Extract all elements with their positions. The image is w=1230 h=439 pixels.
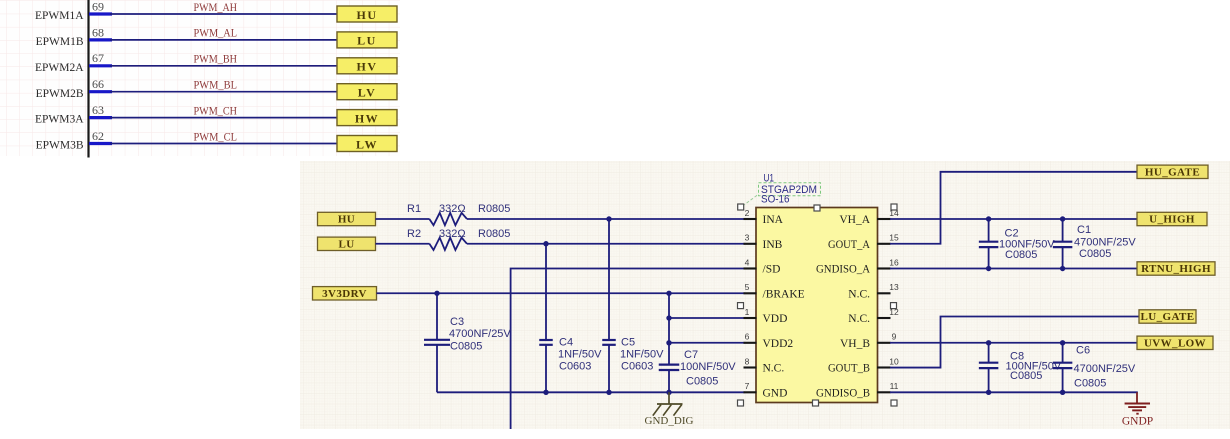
svg-text:5: 5 [745,282,750,292]
pin 9 VH_B [840,332,897,350]
pin EPWM1B (number 68) [36,25,112,48]
net label PWM_BH [194,52,238,66]
svg-text:N.C.: N.C. [848,289,870,301]
resistor R1 332R [407,203,510,225]
pin 2 INA [744,208,784,226]
junction 3V3DRV / VDD2 [666,340,671,345]
svg-text:GNDISO_B: GNDISO_B [816,388,870,400]
svg-text:C0805: C0805 [1010,370,1042,382]
svg-text:4700NF/25V: 4700NF/25V [449,328,511,340]
wire net INB: R2 to pin 3 [467,243,745,245]
capacitor C1 4700NF/25V [1053,219,1137,269]
wire PWM_AL [110,39,337,41]
svg-text:C1: C1 [1077,224,1091,236]
junction U_HIGH / C2 [986,216,991,221]
wire net UVW_LOW: pin 9 VH_B to port [890,342,1137,344]
svg-text:11: 11 [890,381,899,391]
wire net RTNU_HIGH: pin 16 GNDISO_A to port [890,268,1137,270]
svg-text:LU: LU [357,34,377,48]
svg-text:GOUT_A: GOUT_A [828,239,871,251]
svg-text:332Ω: 332Ω [439,228,466,240]
svg-text:C0603: C0603 [559,360,591,372]
wire PWM_CH [110,117,337,119]
capacitor C6 4700NF/25V [1053,343,1136,393]
net label PWM_CH [194,103,238,117]
svg-text:HU: HU [338,214,355,226]
port LU [318,237,376,250]
port HW [337,110,397,126]
svg-text:PWM_AH: PWM_AH [194,0,238,14]
svg-text:LU: LU [338,239,354,251]
junction UVW_LOW / C8 [986,340,991,345]
pin EPWM2B (number 66) [36,77,112,100]
junction RTNU_HIGH / C1 [1060,266,1065,271]
port UVW_LOW [1137,336,1213,349]
svg-text:68: 68 [92,25,104,39]
svg-text:4: 4 [745,257,750,267]
svg-text:PWM_BL: PWM_BL [194,78,238,92]
port LU [337,32,397,48]
svg-text:R2: R2 [407,228,421,240]
op-amp/gate-driver U1 STGAP2DM body [756,208,878,403]
svg-text:R1: R1 [407,203,421,215]
svg-text:PWM_AL: PWM_AL [194,26,238,40]
svg-text:EPWM3B: EPWM3B [36,140,84,152]
pin 7 GND [744,381,788,399]
ground symbol GND_DIG [645,392,694,427]
junction U_HIGH / C1 [1060,216,1065,221]
svg-text:15: 15 [889,233,899,243]
junction GND rail / C4 [543,390,548,395]
svg-text:LV: LV [358,86,377,100]
svg-text:VH_B: VH_B [840,338,870,350]
svg-text:C5: C5 [621,337,635,349]
wire net GND_DIG rail [437,391,745,393]
junction UVW_LOW / C6 [1060,340,1065,345]
svg-text:3: 3 [745,233,750,243]
svg-text:N.C.: N.C. [848,313,870,325]
wire net GNDP: pin 11 GNDISO_B to ground [890,391,1138,393]
pin 3 INB [744,233,783,251]
svg-text:N.C.: N.C. [763,363,785,375]
capacitor C4 1NF/50V [539,244,602,393]
svg-text:RTNU_HIGH: RTNU_HIGH [1141,263,1211,275]
pin EPWM3A (number 63) [35,103,112,126]
svg-text:R0805: R0805 [478,228,510,240]
pin 16 GNDISO_A [816,257,899,275]
wire net /SD (to off-sheet, down) [511,269,745,429]
svg-text:C0805: C0805 [1074,378,1106,390]
svg-text:/BRAKE: /BRAKE [763,289,805,301]
wire net INA: HU port to R1 [376,218,430,220]
capacitor C2 100NF/50V [979,219,1055,269]
svg-text:4700NF/25V: 4700NF/25V [1074,237,1136,249]
junction 3V3DRV / C3 [434,291,439,296]
pin EPWM2A (number 67) [35,51,112,74]
resistor R2 332R [407,228,510,250]
svg-text:PWM_BH: PWM_BH [194,52,238,66]
junction INA / C5 [606,216,611,221]
svg-text:PWM_CH: PWM_CH [194,103,238,117]
svg-text:1NF/50V: 1NF/50V [558,349,602,361]
wire PWM_BL [110,91,337,93]
svg-text:C6: C6 [1076,345,1090,357]
svg-text:HU_GATE: HU_GATE [1145,167,1200,179]
capacitor C3 4700NF/25V [424,293,511,392]
sheet background (main gate-driver schematic) [300,161,1230,429]
pin 6 VDD2 [744,332,794,350]
pin 10 GOUT_B [828,356,899,374]
pin 8 N.C. [744,356,785,374]
svg-text:9: 9 [892,332,897,342]
svg-text:R0805: R0805 [478,203,510,215]
svg-text:HU: HU [357,8,378,22]
wire net INA: R1 to pin 2 [467,218,745,220]
svg-text:INA: INA [763,214,784,226]
MCU component edge (left) [87,0,89,158]
svg-text:EPWM1A: EPWM1A [35,10,84,22]
svg-text:LW: LW [356,137,378,151]
power ground GNDP [1122,392,1153,427]
junction 3V3DRV / C7 branch [666,291,671,296]
junction 3V3DRV / VDD [666,315,671,320]
svg-text:2: 2 [745,208,750,218]
wire PWM_AH [110,13,337,15]
svg-text:SO-16: SO-16 [761,193,790,205]
svg-text:UVW_LOW: UVW_LOW [1144,338,1206,350]
comment STGAP2DM (selected, dashed box) [744,183,821,205]
svg-text:10: 10 [889,356,899,366]
svg-text:U_HIGH: U_HIGH [1149,214,1195,226]
net label PWM_CL [194,129,238,143]
capacitor C5 1NF/50V [602,219,664,392]
net label PWM_AL [194,26,238,40]
wire net 3V3DRV: VDD2 pin 6 [669,342,745,344]
svg-text:EPWM1B: EPWM1B [36,36,84,48]
port HV [337,58,397,74]
port LW [337,136,397,152]
wire net 3V3DRV: port to pin 5 /BRAKE [377,292,745,294]
junction GND rail / C7 / GND_DIG [666,390,671,395]
svg-text:332Ω: 332Ω [439,203,466,215]
svg-text:100NF/50V: 100NF/50V [680,361,736,373]
wire net LU_GATE: pin 10 GOUT_B up and right [890,317,1139,368]
svg-text:13: 13 [889,282,899,292]
net label PWM_AH [194,0,238,14]
net label PWM_BL [194,78,238,92]
pin 12 N.C. [848,307,899,325]
selection handles of U1 [738,204,898,406]
svg-text:GND: GND [763,388,788,400]
svg-text:C3: C3 [450,316,464,328]
svg-text:4700NF/25V: 4700NF/25V [1074,363,1136,375]
svg-text:GNDISO_A: GNDISO_A [816,264,871,276]
junction RTNU_HIGH / C2 [986,266,991,271]
sheet background (upper-left schematic fragment) [0,0,400,156]
port HU [318,212,376,225]
svg-text:67: 67 [92,51,104,65]
svg-text:VDD: VDD [763,313,788,325]
junction GNDP / C6 [1060,390,1065,395]
svg-text:69: 69 [92,0,104,13]
svg-text:63: 63 [92,103,104,117]
port LU_GATE [1139,310,1196,323]
pin 1 VDD [744,307,788,325]
port 3V3DRV [313,287,377,300]
capacitor C7 100NF/50V [659,293,737,392]
svg-text:C0805: C0805 [450,341,482,353]
svg-text:C4: C4 [559,337,573,349]
pin 4 /SD [744,257,781,275]
svg-text:HV: HV [357,60,378,74]
svg-text:C0603: C0603 [621,360,653,372]
port HU_GATE [1137,165,1208,178]
svg-text:1: 1 [745,307,750,317]
pin 13 N.C. [848,282,899,300]
svg-text:GND_DIG: GND_DIG [645,415,694,427]
svg-text:VH_A: VH_A [839,214,870,226]
junction GNDP / C8 [986,390,991,395]
svg-text:INB: INB [763,239,783,251]
pin EPWM1A (number 69) [35,0,112,22]
svg-text:7: 7 [745,381,750,391]
wire net 3V3DRV: VDD pin 1 [669,317,745,319]
pin EPWM3B (number 62) [36,129,112,152]
svg-text:/SD: /SD [763,264,781,276]
svg-text:C7: C7 [684,349,698,361]
port RTNU_HIGH [1137,262,1215,275]
svg-text:EPWM2B: EPWM2B [36,88,84,100]
svg-text:GOUT_B: GOUT_B [828,363,870,375]
svg-text:C0805: C0805 [686,376,718,388]
svg-text:3V3DRV: 3V3DRV [322,288,367,300]
svg-text:GNDP: GNDP [1122,416,1153,428]
svg-text:PWM_CL: PWM_CL [194,129,238,143]
svg-text:HW: HW [355,111,379,125]
designator U1 [764,173,775,185]
wire net U_HIGH: pin 14 VH_A to port [890,218,1137,220]
pin 15 GOUT_A [828,233,899,251]
port LV [337,84,397,100]
svg-text:16: 16 [889,257,899,267]
junction INB / C4 [543,241,548,246]
svg-text:EPWM3A: EPWM3A [35,114,84,126]
svg-text:6: 6 [745,332,750,342]
wire net INB: LU port to R2 [376,243,430,245]
svg-text:EPWM2A: EPWM2A [35,62,84,74]
svg-text:LU_GATE: LU_GATE [1141,311,1195,323]
svg-text:C0805: C0805 [1079,248,1111,260]
footprint SO-16 [761,193,790,205]
junction GND rail / C5 [606,390,611,395]
svg-text:66: 66 [92,77,104,91]
pin 11 GNDISO_B [816,381,899,399]
svg-text:C0805: C0805 [1005,249,1037,261]
pin 5 /BRAKE [744,282,805,300]
wire PWM_BH [110,65,337,67]
port HU [337,6,397,22]
svg-text:1NF/50V: 1NF/50V [620,349,664,361]
wire PWM_CL [110,143,337,145]
wire net HU_GATE: pin 15 GOUT_A up and right [890,172,1137,244]
pin 14 VH_A [839,208,899,226]
svg-text:8: 8 [745,356,750,366]
svg-text:VDD2: VDD2 [763,338,794,350]
svg-text:62: 62 [92,129,104,143]
port U_HIGH [1137,212,1207,225]
capacitor C8 100NF/50V [979,343,1062,393]
